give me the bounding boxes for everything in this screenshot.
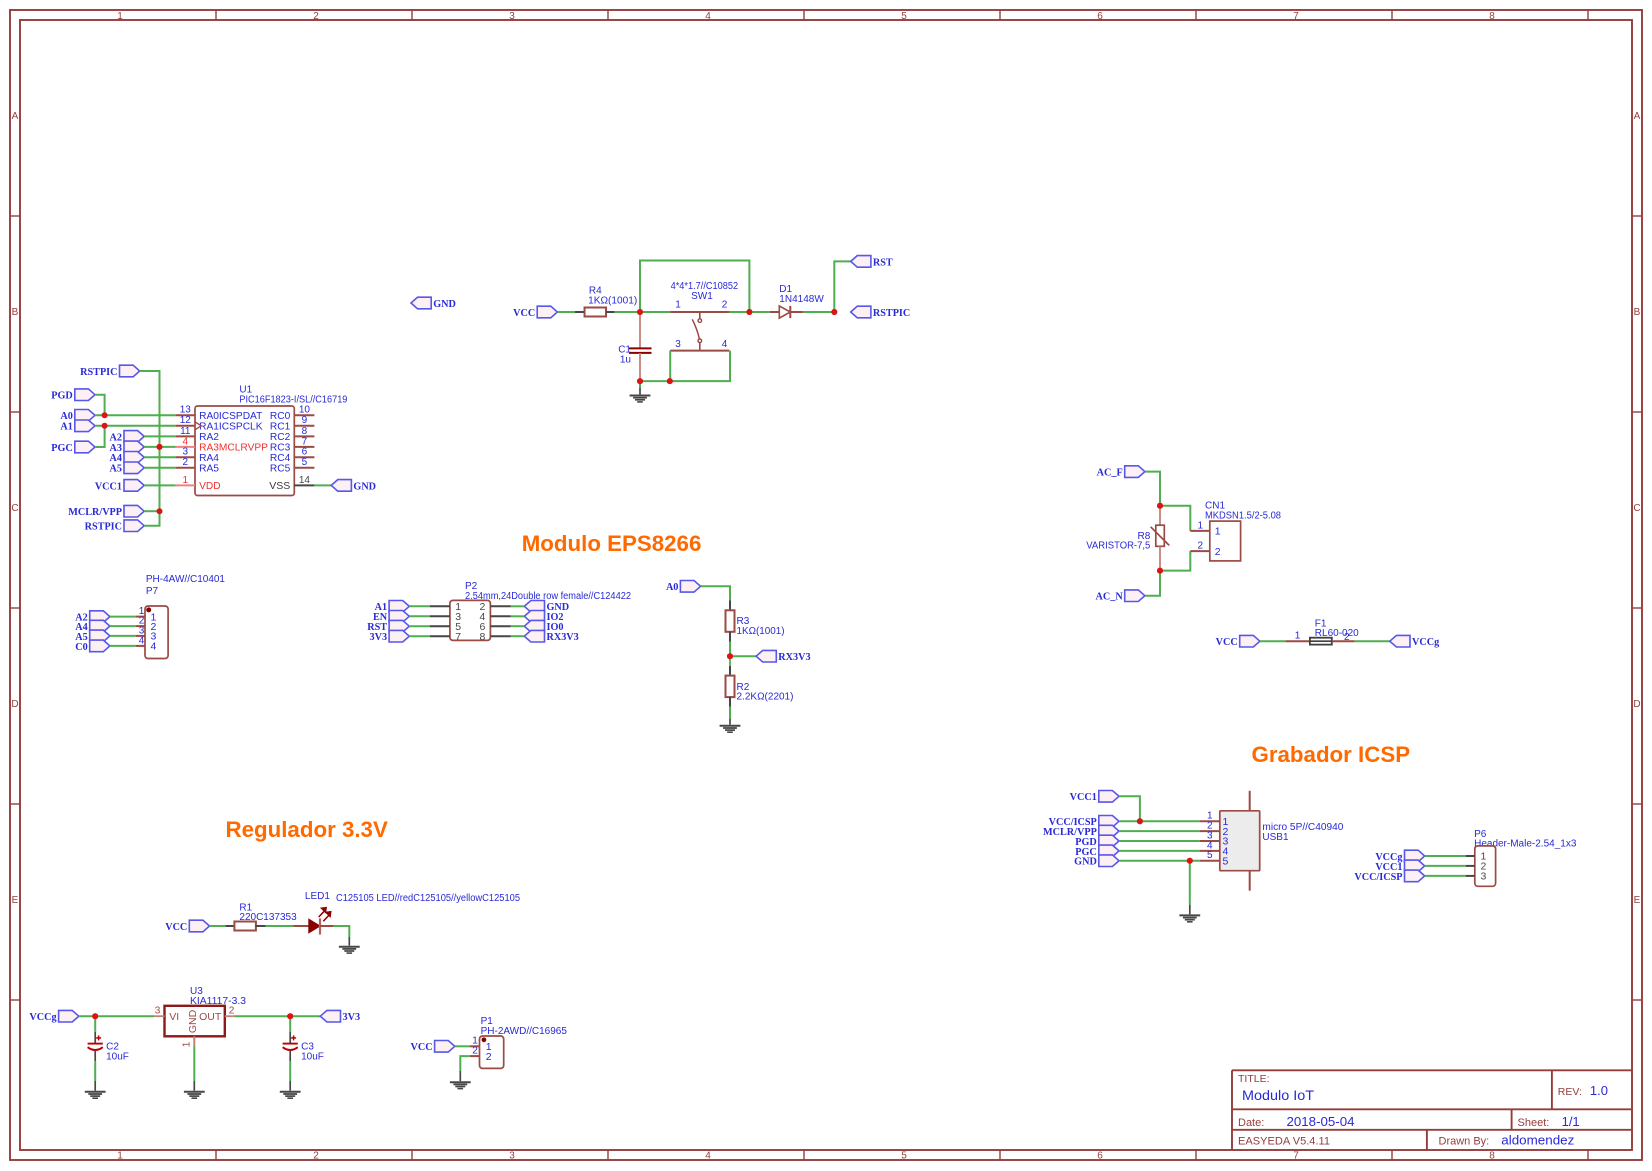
- wire A5 to U1.2: [144, 467, 175, 469]
- svg-text:3: 3: [509, 11, 515, 22]
- svg-text:220C137353: 220C137353: [239, 912, 297, 923]
- svg-text:RA3MCLRVPP: RA3MCLRVPP: [199, 443, 268, 454]
- wire to P6.2: [1425, 865, 1466, 867]
- node PGD (net port): [1099, 835, 1119, 847]
- pin P2.7: [430, 631, 461, 643]
- svg-text:VCC: VCC: [513, 308, 535, 319]
- svg-text:VCC: VCC: [411, 1042, 433, 1053]
- svg-text:3: 3: [1481, 871, 1487, 883]
- wire to USB1.1: [1119, 820, 1200, 822]
- svg-text:2: 2: [472, 1046, 478, 1057]
- wire VCCg in: [79, 1015, 95, 1017]
- svg-text:D: D: [11, 699, 18, 710]
- resistor R1: [226, 922, 266, 931]
- junction node SW1.2 / D1: [746, 309, 752, 315]
- svg-text:Regulador 3.3V: Regulador 3.3V: [226, 817, 388, 842]
- wire to RX3V3 port: [730, 655, 756, 657]
- node 3V3 (net port): [389, 630, 409, 642]
- wire to P2.2: [511, 605, 525, 607]
- svg-text:VI: VI: [169, 1011, 179, 1023]
- svg-text:1: 1: [117, 1151, 123, 1162]
- wire to P2.7: [409, 635, 430, 637]
- node A2 (net port): [124, 431, 144, 443]
- svg-text:MKDSN1.5/2-5.08: MKDSN1.5/2-5.08: [1205, 510, 1281, 521]
- svg-text:E: E: [12, 895, 19, 906]
- wire C3 top: [289, 1016, 291, 1032]
- pin P2.8: [479, 631, 510, 643]
- svg-text:P7: P7: [146, 586, 159, 597]
- node RSTPIC (net port): [120, 365, 140, 377]
- wire VSS to GND port: [314, 484, 331, 486]
- pin U3.1 GND: [181, 1036, 194, 1047]
- svg-text:5: 5: [1223, 855, 1229, 867]
- svg-text:SW1: SW1: [691, 291, 713, 302]
- svg-text:RSTPIC: RSTPIC: [873, 308, 910, 319]
- wire to 3V3 port: [290, 1015, 320, 1017]
- wire VCC to R4: [557, 311, 575, 313]
- svg-text:REV:: REV:: [1558, 1086, 1582, 1098]
- svg-text:A0: A0: [60, 411, 72, 422]
- svg-text:VCCg: VCCg: [29, 1012, 56, 1023]
- node MCLR/VPP (net port): [1099, 825, 1119, 837]
- wire to C1 bottom: [640, 380, 670, 382]
- wire U3 GND down: [193, 1046, 195, 1081]
- svg-text:3: 3: [183, 447, 189, 458]
- svg-text:RA2: RA2: [199, 432, 219, 443]
- svg-text:4: 4: [139, 635, 145, 646]
- pin P2.4: [479, 611, 510, 623]
- svg-text:1: 1: [675, 300, 681, 311]
- wire C3 to ground: [289, 1061, 291, 1081]
- svg-text:C: C: [11, 503, 18, 514]
- svg-text:5: 5: [901, 1151, 907, 1162]
- svg-text:MCLR/VPP: MCLR/VPP: [68, 507, 122, 518]
- junction C3 node: [287, 1013, 293, 1019]
- svg-text:RX3V3: RX3V3: [547, 632, 579, 643]
- svg-text:10: 10: [299, 405, 311, 416]
- connector P6: [1475, 846, 1496, 886]
- wire A1 to U1.12: [95, 425, 176, 427]
- svg-text:3V3: 3V3: [343, 1012, 361, 1023]
- node IO0 (net port): [524, 620, 544, 632]
- node VCCg (net port): [1405, 850, 1425, 862]
- svg-text:Date:: Date:: [1238, 1117, 1264, 1129]
- pin U1.14 VSS: [269, 475, 314, 492]
- svg-text:2: 2: [313, 11, 319, 22]
- wire PGC to A1 line: [95, 426, 105, 447]
- svg-text:RST: RST: [873, 257, 893, 268]
- wire to USB1.5: [1119, 860, 1200, 862]
- svg-text:LED1: LED1: [305, 891, 330, 902]
- svg-text:Modulo IoT: Modulo IoT: [1242, 1087, 1314, 1103]
- svg-text:OUT: OUT: [199, 1011, 222, 1023]
- svg-text:RSTPIC: RSTPIC: [85, 522, 122, 533]
- node VCCg (net port): [59, 1010, 79, 1022]
- svg-text:PGC: PGC: [51, 443, 73, 454]
- wire to P7.1: [110, 616, 136, 618]
- svg-text:RC2: RC2: [270, 432, 291, 443]
- clock chevron on pin U1.12: [195, 422, 201, 430]
- junction C2 node: [92, 1013, 98, 1019]
- wire to P6.3: [1425, 875, 1466, 877]
- node VCC (net port): [1240, 635, 1260, 647]
- pin U1.13 RA0ICSPDAT: [176, 405, 263, 422]
- wire R3 to R2: [729, 642, 731, 657]
- wire VCC to R1: [210, 925, 226, 927]
- wire VCC1 to U1.1: [144, 484, 175, 486]
- pin U1.9 RC1: [270, 415, 314, 432]
- varistor R8 VARISTOR-7,5: [1151, 506, 1170, 571]
- svg-text:2: 2: [1215, 546, 1221, 558]
- wire R4 to node SW1.1: [615, 311, 640, 313]
- svg-text:4: 4: [705, 11, 711, 22]
- svg-text:2: 2: [313, 1151, 319, 1162]
- connector P7: [145, 606, 168, 659]
- svg-text:Sheet:: Sheet:: [1518, 1117, 1550, 1129]
- pin USB1.3: [1200, 830, 1229, 847]
- wire to SW1 pin1: [640, 311, 670, 313]
- node RSTPIC (net port): [124, 520, 144, 532]
- node A3 (net port): [124, 441, 144, 453]
- svg-text:aldomendez: aldomendez: [1501, 1133, 1574, 1148]
- title block: [1232, 1070, 1632, 1150]
- node A0 (net port): [680, 581, 700, 593]
- svg-text:8: 8: [302, 426, 308, 437]
- wire to P7.3: [110, 635, 136, 637]
- connector USB1 micro 5P//C40940: [1220, 791, 1260, 891]
- svg-text:2: 2: [183, 457, 189, 468]
- capacitor C3 (polarized): [283, 1032, 298, 1061]
- svg-text:Drawn By:: Drawn By:: [1439, 1136, 1490, 1148]
- svg-text:RC4: RC4: [270, 453, 291, 464]
- pin P1.1: [470, 1036, 492, 1053]
- junction SW1.3 to gnd rail: [667, 378, 673, 384]
- svg-text:GND: GND: [433, 299, 456, 310]
- svg-text:RSTPIC: RSTPIC: [80, 367, 117, 378]
- pin USB1.5: [1200, 850, 1229, 867]
- wire to P7.4: [110, 645, 136, 647]
- node PGC (net port): [75, 441, 95, 453]
- wire to CN1.1: [1160, 506, 1190, 531]
- svg-text:TITLE:: TITLE:: [1238, 1073, 1270, 1085]
- svg-text:1: 1: [183, 475, 189, 486]
- svg-text:EASYEDA V5.4.11: EASYEDA V5.4.11: [1238, 1136, 1330, 1148]
- wire USB GND down: [1189, 861, 1191, 905]
- pin P2.2: [479, 601, 510, 613]
- svg-text:2: 2: [722, 300, 728, 311]
- svg-text:RC1: RC1: [270, 422, 291, 433]
- svg-text:7: 7: [1293, 1151, 1299, 1162]
- svg-text:12: 12: [180, 415, 192, 426]
- capacitor C2 (polarized): [88, 1032, 103, 1061]
- pin U3.2 OUT: [225, 1006, 235, 1017]
- svg-text:VCC1: VCC1: [95, 481, 122, 492]
- junction RST/RSTPIC node: [831, 309, 837, 315]
- svg-text:2.54mm,24Double row female//C1: 2.54mm,24Double row female//C124422: [465, 591, 631, 602]
- wire VCC1 down: [1119, 796, 1140, 821]
- wire A2 to U1.11: [144, 435, 175, 437]
- svg-text:RA1ICSPCLK: RA1ICSPCLK: [199, 422, 263, 433]
- wire C2 to ground: [94, 1061, 96, 1081]
- svg-text:VCC1: VCC1: [1070, 792, 1097, 803]
- pin U3.3 VI: [154, 1006, 165, 1017]
- svg-text:2018-05-04: 2018-05-04: [1287, 1114, 1355, 1129]
- wire to USB1.4: [1119, 850, 1200, 852]
- svg-text:11: 11: [180, 426, 191, 437]
- svg-text:2: 2: [486, 1051, 492, 1063]
- svg-text:GND: GND: [1074, 857, 1097, 868]
- pin U1.7 RC3: [270, 436, 314, 453]
- junction VCC1/VCC-ICSP: [1137, 818, 1143, 824]
- LED LED1 C125105: [293, 908, 333, 935]
- svg-text:A5: A5: [110, 464, 122, 475]
- svg-text:PIC16F1823-I/SL//C16719: PIC16F1823-I/SL//C16719: [239, 395, 347, 406]
- pin U1.12 RA1ICSPCLK: [176, 415, 263, 432]
- wire D1 anode: [749, 311, 770, 313]
- wire VCC to F1: [1260, 640, 1285, 642]
- svg-text:1KΩ(1001): 1KΩ(1001): [588, 295, 637, 306]
- pin P7.4: [136, 635, 157, 652]
- svg-text:7: 7: [455, 631, 461, 643]
- svg-text:E: E: [1634, 895, 1641, 906]
- svg-text:A: A: [1634, 111, 1641, 122]
- capacitor C1: [629, 312, 652, 381]
- wire R2 to ground: [729, 707, 731, 719]
- wire D1 cathode to RSTPIC: [803, 311, 834, 313]
- svg-text:14: 14: [299, 475, 311, 486]
- svg-text:VCC/ICSP: VCC/ICSP: [1354, 872, 1402, 883]
- pin P2.1: [430, 601, 461, 613]
- pin P2.5: [430, 621, 461, 633]
- node GND (net port): [1099, 855, 1119, 867]
- node A5 (net port): [124, 462, 144, 474]
- connector CN1 MKDSN1.5/2-5.08: [1210, 521, 1241, 561]
- svg-text:VDD: VDD: [199, 481, 221, 492]
- svg-text:3: 3: [675, 339, 681, 350]
- svg-text:A: A: [12, 111, 19, 122]
- svg-text:3V3: 3V3: [370, 632, 388, 643]
- resistor R4: [575, 308, 615, 317]
- ground (LED): [339, 947, 360, 953]
- svg-text:1N4148W: 1N4148W: [779, 294, 824, 305]
- node C0 (net port): [90, 640, 110, 652]
- node VCC/ICSP (net port): [1405, 870, 1425, 882]
- wire PGD to A0 line: [95, 395, 105, 416]
- node A0 (net port): [75, 410, 95, 422]
- pin USB1.4: [1200, 840, 1229, 857]
- connector P2: [450, 600, 491, 640]
- node RSTPIC (net port): [851, 306, 871, 318]
- wire SW1 pins 3-4 loop: [670, 351, 730, 382]
- pin P6.3: [1466, 871, 1487, 883]
- node VCCg (net port): [1390, 635, 1410, 647]
- node EN (net port): [389, 611, 409, 623]
- svg-text:VARISTOR-7,5: VARISTOR-7,5: [1086, 541, 1150, 552]
- wire to P2.1: [409, 605, 430, 607]
- wire to P7.2: [110, 625, 136, 627]
- svg-text:1/1: 1/1: [1562, 1114, 1580, 1129]
- wire to P2.3: [409, 615, 430, 617]
- svg-text:A0: A0: [666, 582, 678, 593]
- node RST (net port): [389, 620, 409, 632]
- wire OUT to 3V3: [235, 1015, 291, 1017]
- pin U1.6 RC4: [270, 447, 314, 464]
- fuse F1 RL60-020: [1285, 638, 1354, 645]
- node VCC1 (net port): [124, 480, 144, 492]
- svg-text:6: 6: [1097, 11, 1103, 22]
- pin P1.2: [470, 1046, 492, 1063]
- ground (U3): [184, 1092, 205, 1098]
- svg-text:3: 3: [155, 1006, 161, 1017]
- svg-text:A2: A2: [110, 432, 122, 443]
- svg-text:KIA1117-3.3: KIA1117-3.3: [190, 996, 246, 1007]
- svg-text:A4: A4: [110, 453, 122, 464]
- pin U1.3 RA4: [176, 447, 220, 464]
- node VCC (net port): [189, 920, 209, 932]
- svg-text:4: 4: [151, 641, 157, 653]
- wire to CN1.2: [1160, 551, 1190, 571]
- svg-text:RL60-020: RL60-020: [1315, 628, 1359, 639]
- svg-text:VCC: VCC: [165, 922, 187, 933]
- node RST (net port): [851, 256, 871, 268]
- wire C1 to ground: [639, 381, 641, 388]
- wire to P6.1: [1425, 855, 1466, 857]
- wire MCLR/VPP to rail: [144, 510, 159, 512]
- junction AC_N node: [1157, 568, 1163, 574]
- IC U3 KIA1117-3.3: [165, 1006, 225, 1037]
- svg-text:5: 5: [1207, 850, 1213, 861]
- svg-text:1KΩ(1001): 1KΩ(1001): [737, 626, 785, 637]
- wire AC_N up: [1145, 571, 1160, 596]
- svg-text:4: 4: [705, 1151, 711, 1162]
- wire F1 to VCCg: [1355, 640, 1390, 642]
- pin P6.2: [1466, 861, 1487, 873]
- svg-text:B: B: [12, 307, 19, 318]
- svg-text:A3: A3: [110, 443, 122, 454]
- ground (ICSP): [1179, 915, 1200, 921]
- node AC_N (net port): [1125, 590, 1145, 602]
- node IO2 (net port): [524, 611, 544, 623]
- pin U1.4 RA3MCLRVPP: [176, 436, 269, 453]
- ground (C3): [280, 1092, 301, 1098]
- svg-text:AC_F: AC_F: [1097, 468, 1123, 479]
- junction GND net: [1187, 858, 1193, 864]
- svg-text:8: 8: [1489, 11, 1495, 22]
- svg-text:2.2KΩ(2201): 2.2KΩ(2201): [737, 692, 794, 703]
- svg-text:8: 8: [479, 631, 485, 643]
- svg-text:RC5: RC5: [270, 464, 291, 475]
- wire to P2.5: [409, 625, 430, 627]
- node A1 (net port): [75, 420, 95, 432]
- wire to RST port: [834, 261, 850, 312]
- node A2 (net port): [90, 611, 110, 623]
- svg-text:PGD: PGD: [51, 391, 73, 402]
- diode D1 1N4148W: [770, 306, 803, 318]
- connector P1: [480, 1036, 504, 1068]
- wire LED1 to ground: [334, 926, 350, 937]
- pin-1 marker P7: [146, 607, 151, 612]
- wire P1.2 to ground: [460, 1056, 469, 1071]
- ground (A0 divider): [720, 726, 741, 732]
- svg-text:D: D: [1633, 699, 1640, 710]
- svg-text:USB1: USB1: [1262, 832, 1289, 843]
- svg-text:1: 1: [1295, 631, 1301, 642]
- node 3V3 (net port): [320, 1010, 340, 1022]
- node GND (net port): [524, 601, 544, 613]
- ground (P1): [450, 1082, 471, 1088]
- ground (C2): [85, 1092, 106, 1098]
- pin U1.10 RC0: [270, 405, 314, 422]
- svg-text:B: B: [1634, 307, 1641, 318]
- svg-text:C0: C0: [75, 642, 87, 653]
- svg-text:7: 7: [302, 436, 308, 447]
- wire A4 to U1.3: [144, 456, 175, 458]
- pin-1 marker P1: [482, 1037, 487, 1042]
- pin USB1.1: [1200, 811, 1229, 828]
- pin P7.1: [136, 606, 157, 623]
- junction rail to RA3: [157, 444, 163, 450]
- svg-text:10uF: 10uF: [301, 1052, 324, 1063]
- pin P2.3: [430, 611, 461, 623]
- pin U1.2 RA5: [176, 457, 220, 474]
- svg-text:3: 3: [509, 1151, 515, 1162]
- wire to U3 VI: [95, 1015, 154, 1017]
- svg-text:AC_N: AC_N: [1096, 592, 1124, 603]
- svg-text:1: 1: [1215, 526, 1221, 538]
- pin U1.8 RC2: [270, 426, 314, 443]
- wire A3 to U1.4: [144, 446, 175, 448]
- resistor R2: [726, 656, 735, 706]
- node GND (net port): [331, 480, 351, 492]
- wire RSTPIC vertical rail: [140, 371, 160, 526]
- svg-text:1: 1: [181, 1041, 192, 1047]
- wire to USB1.2: [1119, 830, 1200, 832]
- svg-text:9: 9: [302, 415, 308, 426]
- svg-text:Grabador ICSP: Grabador ICSP: [1252, 742, 1411, 767]
- svg-text:Modulo EPS8266: Modulo EPS8266: [522, 531, 702, 556]
- node A4 (net port): [124, 452, 144, 464]
- junction node C1 top: [637, 309, 643, 315]
- svg-text:13: 13: [180, 405, 192, 416]
- wire SW1 pin2 to D1: [729, 311, 749, 313]
- svg-text:C: C: [1633, 503, 1640, 514]
- svg-text:C125105 LED//redC125105//yello: C125105 LED//redC125105//yellowC125105: [336, 893, 520, 904]
- node PGD (net port): [75, 389, 95, 401]
- node PGC (net port): [1099, 845, 1119, 857]
- svg-text:GND: GND: [353, 481, 376, 492]
- svg-text:VCC: VCC: [1216, 637, 1238, 648]
- pin P6.1: [1466, 851, 1487, 863]
- junction AC_F node: [1157, 503, 1163, 509]
- svg-text:RA5: RA5: [199, 464, 219, 475]
- svg-text:5: 5: [302, 457, 308, 468]
- pin U1.11 RA2: [176, 426, 220, 443]
- svg-text:RC3: RC3: [270, 443, 291, 454]
- node MCLR/VPP (net port): [124, 505, 144, 517]
- pin CN1.1: [1190, 520, 1220, 537]
- resistor R3: [726, 600, 735, 641]
- wire AC_F down: [1145, 472, 1160, 506]
- svg-text:RC0: RC0: [270, 411, 291, 422]
- svg-text:5: 5: [901, 11, 907, 22]
- node VCC/ICSP (net port): [1099, 816, 1119, 828]
- wire to P2.8: [511, 635, 525, 637]
- wire A0 to U1.13: [95, 414, 176, 416]
- junction dots overlay: [92, 309, 1193, 1019]
- node RX3V3 (net port): [756, 650, 776, 662]
- junction C1 bottom: [637, 378, 643, 384]
- node VCC (net port): [435, 1041, 455, 1053]
